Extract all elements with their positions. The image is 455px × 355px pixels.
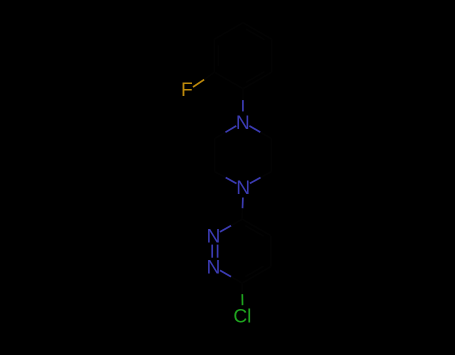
- svg-text:N: N: [236, 113, 250, 134]
- svg-text:N: N: [206, 227, 220, 248]
- svg-text:N: N: [236, 178, 250, 199]
- svg-text:F: F: [181, 80, 193, 101]
- svg-text:Cl: Cl: [233, 307, 251, 328]
- svg-text:N: N: [206, 258, 220, 279]
